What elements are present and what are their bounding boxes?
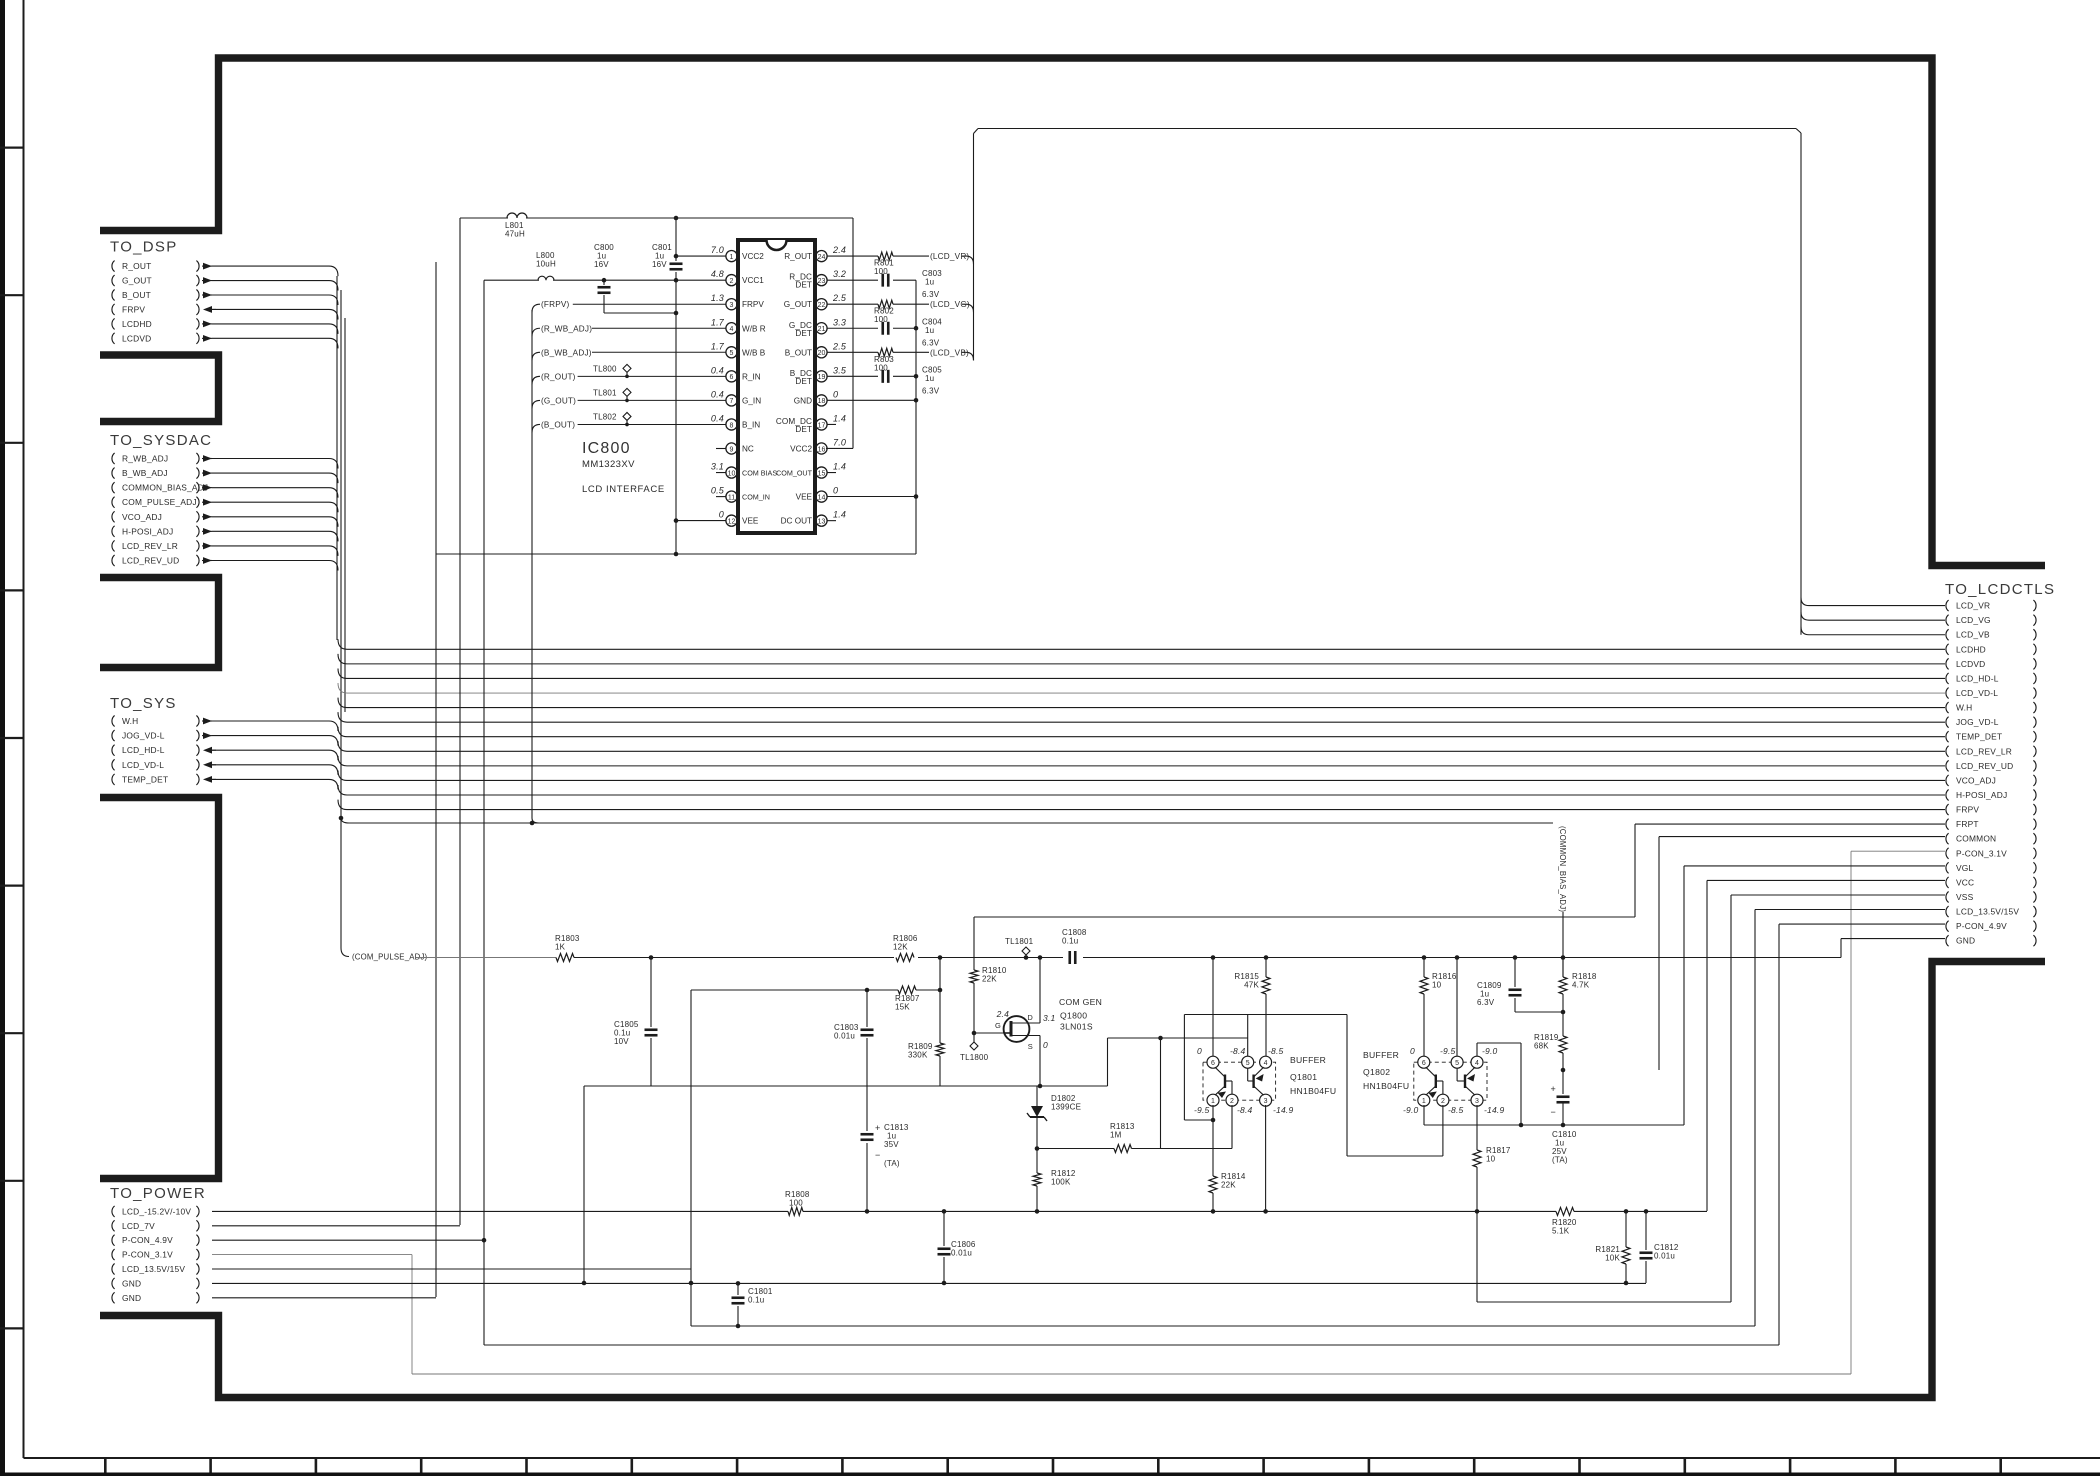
- svg-text:(G_OUT): (G_OUT): [541, 396, 576, 405]
- svg-text:P-CON_4.9V: P-CON_4.9V: [1956, 921, 2007, 931]
- svg-text:0: 0: [1197, 1046, 1202, 1056]
- svg-text:TO_DSP: TO_DSP: [110, 239, 178, 256]
- svg-text:W.H: W.H: [122, 716, 138, 726]
- svg-text:(COMMON_BIAS_ADJ): (COMMON_BIAS_ADJ): [1558, 826, 1567, 912]
- svg-text:330K: 330K: [908, 1051, 928, 1060]
- svg-text:8: 8: [730, 422, 734, 429]
- svg-text:G_OUT: G_OUT: [784, 300, 812, 309]
- svg-text:LCDHD: LCDHD: [122, 319, 152, 329]
- svg-text:0: 0: [1043, 1040, 1048, 1050]
- svg-text:IC800: IC800: [582, 440, 631, 457]
- svg-text:+: +: [875, 1123, 880, 1133]
- svg-text:1.7: 1.7: [711, 341, 725, 351]
- svg-text:−: −: [875, 1150, 880, 1160]
- svg-text:1.4: 1.4: [833, 413, 846, 423]
- svg-text:14: 14: [818, 494, 826, 501]
- svg-text:0: 0: [833, 389, 838, 399]
- svg-text:1u: 1u: [925, 326, 934, 335]
- svg-text:LCD_13.5V/15V: LCD_13.5V/15V: [1956, 907, 2019, 917]
- svg-text:17: 17: [818, 422, 826, 429]
- svg-text:TL800: TL800: [593, 364, 617, 373]
- svg-text:0.01u: 0.01u: [1654, 1252, 1675, 1261]
- svg-text:W/B R: W/B R: [742, 324, 766, 333]
- svg-text:COMMON: COMMON: [1956, 834, 1996, 844]
- svg-text:3.5: 3.5: [833, 365, 847, 375]
- svg-text:TEMP_DET: TEMP_DET: [1956, 732, 2002, 742]
- svg-text:P-CON_4.9V: P-CON_4.9V: [122, 1235, 173, 1245]
- svg-text:FRPV: FRPV: [1956, 805, 1979, 815]
- svg-text:2: 2: [730, 278, 734, 285]
- svg-text:(TA): (TA): [1552, 1156, 1568, 1165]
- svg-text:MM1323XV: MM1323XV: [582, 459, 635, 470]
- svg-text:6.3V: 6.3V: [922, 338, 940, 347]
- svg-text:BUFFER: BUFFER: [1363, 1050, 1399, 1060]
- svg-text:B_IN: B_IN: [742, 420, 760, 429]
- svg-text:22: 22: [818, 302, 826, 309]
- svg-text:R_WB_ADJ: R_WB_ADJ: [122, 454, 168, 464]
- svg-text:47K: 47K: [1244, 981, 1259, 990]
- svg-text:H-POSI_ADJ: H-POSI_ADJ: [122, 526, 173, 536]
- svg-text:LCD_-15.2V/-10V: LCD_-15.2V/-10V: [122, 1206, 191, 1216]
- svg-text:LCD_VB: LCD_VB: [1956, 630, 1990, 640]
- svg-text:W/B B: W/B B: [742, 348, 766, 357]
- svg-text:47uH: 47uH: [505, 230, 525, 239]
- svg-text:4.8: 4.8: [711, 269, 724, 279]
- svg-text:(B_WB_ADJ): (B_WB_ADJ): [541, 348, 592, 357]
- svg-text:LCD_REV_LR: LCD_REV_LR: [1956, 746, 2012, 756]
- svg-text:G: G: [995, 1021, 1001, 1030]
- svg-text:LCD_VD-L: LCD_VD-L: [122, 760, 164, 770]
- svg-text:7.0: 7.0: [711, 245, 724, 255]
- svg-text:TL802: TL802: [593, 412, 617, 421]
- svg-text:1u: 1u: [925, 278, 934, 287]
- svg-text:18: 18: [818, 398, 826, 405]
- svg-text:6: 6: [1422, 1060, 1426, 1067]
- svg-text:VSS: VSS: [1956, 892, 1974, 902]
- svg-text:G_OUT: G_OUT: [122, 276, 152, 286]
- svg-text:-9.5: -9.5: [1194, 1105, 1210, 1115]
- svg-text:LCD_VD-L: LCD_VD-L: [1956, 688, 1998, 698]
- svg-text:(B_OUT): (B_OUT): [541, 420, 575, 429]
- svg-text:D: D: [1027, 1013, 1033, 1022]
- svg-text:21: 21: [818, 326, 826, 333]
- svg-text:FRPV: FRPV: [742, 300, 764, 309]
- svg-text:B_OUT: B_OUT: [122, 290, 151, 300]
- svg-text:4: 4: [1475, 1060, 1479, 1067]
- svg-text:LCD_REV_LR: LCD_REV_LR: [122, 541, 178, 551]
- svg-text:-8.4: -8.4: [1237, 1105, 1253, 1115]
- svg-text:13: 13: [818, 518, 826, 525]
- svg-text:HN1B04FU: HN1B04FU: [1290, 1086, 1336, 1096]
- svg-text:NC: NC: [742, 445, 754, 454]
- svg-text:G_IN: G_IN: [742, 396, 761, 405]
- svg-text:10K: 10K: [1605, 1254, 1620, 1263]
- svg-text:LCD_13.5V/15V: LCD_13.5V/15V: [122, 1264, 185, 1274]
- svg-text:VEE: VEE: [742, 517, 759, 526]
- svg-text:BUFFER: BUFFER: [1290, 1055, 1326, 1065]
- svg-text:16V: 16V: [594, 260, 609, 269]
- svg-text:7: 7: [730, 398, 734, 405]
- svg-text:R_OUT: R_OUT: [784, 252, 812, 261]
- svg-text:DET: DET: [795, 281, 812, 290]
- svg-text:−: −: [1551, 1107, 1556, 1117]
- svg-text:2.5: 2.5: [832, 341, 847, 351]
- svg-text:3.2: 3.2: [833, 269, 846, 279]
- svg-text:P-CON_3.1V: P-CON_3.1V: [122, 1250, 173, 1260]
- svg-text:0.1u: 0.1u: [1062, 937, 1078, 946]
- svg-text:0.4: 0.4: [711, 389, 724, 399]
- svg-text:4: 4: [1264, 1060, 1268, 1067]
- svg-text:TEMP_DET: TEMP_DET: [122, 774, 168, 784]
- svg-text:VCC2: VCC2: [742, 252, 764, 261]
- svg-text:TL801: TL801: [593, 388, 617, 397]
- svg-text:0.1u: 0.1u: [748, 1296, 764, 1305]
- svg-text:-14.9: -14.9: [1273, 1105, 1293, 1115]
- svg-text:5: 5: [730, 350, 734, 357]
- svg-text:LCDVD: LCDVD: [122, 333, 151, 343]
- svg-text:20: 20: [818, 350, 826, 357]
- svg-text:4: 4: [730, 326, 734, 333]
- svg-text:LCD_VR: LCD_VR: [1956, 601, 1990, 611]
- svg-text:22K: 22K: [1221, 1181, 1236, 1190]
- svg-text:6: 6: [730, 374, 734, 381]
- svg-text:LCDHD: LCDHD: [1956, 644, 1986, 654]
- svg-text:COMMON_BIAS_ADJ: COMMON_BIAS_ADJ: [122, 483, 208, 493]
- svg-text:0.4: 0.4: [711, 413, 724, 423]
- svg-text:1.4: 1.4: [833, 462, 846, 472]
- svg-text:DET: DET: [795, 425, 812, 434]
- svg-text:6.3V: 6.3V: [922, 290, 940, 299]
- svg-text:FRPV: FRPV: [122, 304, 145, 314]
- svg-text:3: 3: [1475, 1098, 1479, 1105]
- svg-text:LCD INTERFACE: LCD INTERFACE: [582, 484, 665, 495]
- svg-text:(R_OUT): (R_OUT): [541, 372, 576, 381]
- svg-text:24: 24: [818, 254, 826, 261]
- svg-text:5: 5: [1455, 1060, 1459, 1067]
- svg-text:68K: 68K: [1534, 1042, 1549, 1051]
- svg-text:0.4: 0.4: [711, 365, 724, 375]
- svg-text:35V: 35V: [884, 1140, 899, 1149]
- svg-text:HN1B04FU: HN1B04FU: [1363, 1081, 1409, 1091]
- svg-text:(FRPV): (FRPV): [541, 300, 570, 309]
- svg-text:VGL: VGL: [1956, 863, 1974, 873]
- svg-text:-8.5: -8.5: [1268, 1046, 1284, 1056]
- svg-text:10: 10: [1432, 981, 1442, 990]
- svg-text:(TA): (TA): [884, 1159, 900, 1168]
- svg-text:19: 19: [818, 374, 826, 381]
- svg-text:0: 0: [719, 510, 724, 520]
- svg-text:B_WB_ADJ: B_WB_ADJ: [122, 468, 168, 478]
- svg-text:TO_POWER: TO_POWER: [110, 1185, 206, 1202]
- svg-text:0.01u: 0.01u: [951, 1249, 972, 1258]
- svg-text:1399CE: 1399CE: [1051, 1103, 1081, 1112]
- svg-text:VEE: VEE: [796, 493, 813, 502]
- svg-text:100K: 100K: [1051, 1178, 1071, 1187]
- svg-text:R_OUT: R_OUT: [122, 261, 151, 271]
- svg-text:VCC1: VCC1: [742, 276, 764, 285]
- svg-text:LCD_REV_UD: LCD_REV_UD: [1956, 761, 2013, 771]
- svg-text:16: 16: [818, 446, 826, 453]
- svg-text:3.1: 3.1: [711, 462, 724, 472]
- svg-text:9: 9: [730, 446, 734, 453]
- svg-text:LCDVD: LCDVD: [1956, 659, 1985, 669]
- svg-text:10: 10: [1486, 1155, 1496, 1164]
- svg-text:COM_PULSE_ADJ: COM_PULSE_ADJ: [122, 497, 197, 507]
- svg-text:(R_WB_ADJ): (R_WB_ADJ): [541, 324, 592, 333]
- svg-text:COM GEN: COM GEN: [1059, 997, 1102, 1007]
- svg-text:Q1801: Q1801: [1290, 1072, 1317, 1082]
- svg-text:JOG_VD-L: JOG_VD-L: [1956, 717, 1999, 727]
- svg-text:S: S: [1028, 1042, 1033, 1051]
- svg-text:100: 100: [874, 267, 888, 276]
- svg-text:B_OUT: B_OUT: [785, 348, 812, 357]
- svg-text:W.H: W.H: [1956, 703, 1972, 713]
- svg-text:GND: GND: [122, 1293, 141, 1303]
- svg-text:23: 23: [818, 278, 826, 285]
- svg-text:GND: GND: [1956, 936, 1975, 946]
- svg-text:1u: 1u: [925, 374, 934, 383]
- svg-text:12: 12: [728, 518, 736, 525]
- svg-text:Q1800: Q1800: [1060, 1011, 1087, 1021]
- svg-text:10V: 10V: [614, 1037, 629, 1046]
- svg-text:2: 2: [1230, 1098, 1234, 1105]
- svg-text:-8.4: -8.4: [1230, 1046, 1246, 1056]
- svg-text:LCD_VG: LCD_VG: [1956, 615, 1991, 625]
- svg-text:15K: 15K: [895, 1003, 910, 1012]
- svg-text:12K: 12K: [893, 943, 908, 952]
- svg-text:5: 5: [1246, 1060, 1250, 1067]
- svg-text:1.3: 1.3: [711, 293, 724, 303]
- svg-text:JOG_VD-L: JOG_VD-L: [122, 731, 165, 741]
- svg-text:0: 0: [1410, 1046, 1415, 1056]
- svg-text:1: 1: [1422, 1098, 1426, 1105]
- svg-text:2.5: 2.5: [832, 293, 847, 303]
- svg-text:FRPT: FRPT: [1956, 819, 1979, 829]
- svg-text:16V: 16V: [652, 260, 667, 269]
- svg-text:Q1802: Q1802: [1363, 1067, 1390, 1077]
- svg-text:VCC: VCC: [1956, 877, 1974, 887]
- svg-text:15: 15: [818, 470, 826, 477]
- svg-text:VCO_ADJ: VCO_ADJ: [1956, 775, 1996, 785]
- svg-text:0.01u: 0.01u: [834, 1032, 855, 1041]
- svg-text:11: 11: [728, 494, 735, 501]
- svg-text:1.4: 1.4: [833, 510, 846, 520]
- svg-text:0: 0: [833, 486, 838, 496]
- svg-text:LCD_HD-L: LCD_HD-L: [122, 745, 165, 755]
- svg-text:LCD_HD-L: LCD_HD-L: [1956, 673, 1999, 683]
- svg-text:TL1801: TL1801: [1005, 937, 1034, 946]
- svg-text:TO_LCDCTLS: TO_LCDCTLS: [1945, 581, 2055, 598]
- svg-text:-8.5: -8.5: [1448, 1105, 1464, 1115]
- svg-text:GND: GND: [122, 1278, 141, 1288]
- svg-text:TO_SYS: TO_SYS: [110, 695, 177, 712]
- svg-text:VCC2: VCC2: [790, 445, 812, 454]
- svg-text:LCD_REV_UD: LCD_REV_UD: [122, 555, 179, 565]
- svg-text:6: 6: [1211, 1060, 1215, 1067]
- svg-text:DET: DET: [795, 377, 812, 386]
- svg-text:COM_IN: COM_IN: [742, 493, 770, 502]
- svg-text:TO_SYSDAC: TO_SYSDAC: [110, 432, 212, 449]
- svg-text:COM BIAS: COM BIAS: [742, 469, 777, 478]
- svg-text:LCD_7V: LCD_7V: [122, 1221, 155, 1231]
- svg-text:2.4: 2.4: [832, 245, 846, 255]
- svg-text:R_IN: R_IN: [742, 372, 761, 381]
- svg-text:-9.5: -9.5: [1440, 1046, 1456, 1056]
- svg-text:COM_OUT: COM_OUT: [776, 469, 813, 478]
- svg-text:3LN01S: 3LN01S: [1060, 1022, 1093, 1032]
- svg-text:H-POSI_ADJ: H-POSI_ADJ: [1956, 790, 2007, 800]
- svg-text:6.3V: 6.3V: [922, 386, 940, 395]
- svg-text:3: 3: [730, 302, 734, 309]
- svg-text:2: 2: [1441, 1098, 1445, 1105]
- svg-text:7.0: 7.0: [833, 438, 846, 448]
- svg-text:10uH: 10uH: [536, 260, 556, 269]
- svg-text:1K: 1K: [555, 943, 566, 952]
- svg-text:1M: 1M: [1110, 1131, 1122, 1140]
- svg-text:3.3: 3.3: [833, 317, 846, 327]
- svg-text:3.1: 3.1: [1043, 1013, 1055, 1023]
- svg-text:1: 1: [1211, 1098, 1215, 1105]
- svg-text:100: 100: [789, 1199, 803, 1208]
- svg-text:GND: GND: [794, 396, 812, 405]
- svg-text:3: 3: [1264, 1098, 1268, 1105]
- svg-text:2.4: 2.4: [996, 1009, 1009, 1019]
- svg-text:(COM_PULSE_ADJ): (COM_PULSE_ADJ): [352, 953, 428, 962]
- svg-text:-9.0: -9.0: [1403, 1105, 1419, 1115]
- svg-text:VCO_ADJ: VCO_ADJ: [122, 512, 162, 522]
- svg-text:-14.9: -14.9: [1484, 1105, 1504, 1115]
- svg-text:0.5: 0.5: [711, 486, 725, 496]
- svg-text:6.3V: 6.3V: [1477, 998, 1495, 1007]
- svg-text:TL1800: TL1800: [960, 1053, 989, 1062]
- svg-text:-9.0: -9.0: [1482, 1046, 1498, 1056]
- svg-text:100: 100: [874, 315, 888, 324]
- svg-text:P-CON_3.1V: P-CON_3.1V: [1956, 848, 2007, 858]
- svg-text:1.7: 1.7: [711, 317, 725, 327]
- svg-text:5.1K: 5.1K: [1552, 1227, 1570, 1236]
- svg-text:DET: DET: [795, 329, 812, 338]
- svg-text:22K: 22K: [982, 975, 997, 984]
- svg-text:+: +: [1551, 1084, 1556, 1094]
- svg-text:4.7K: 4.7K: [1572, 981, 1590, 990]
- svg-text:100: 100: [874, 363, 888, 372]
- svg-text:DC OUT: DC OUT: [781, 517, 812, 526]
- svg-text:1: 1: [730, 254, 734, 261]
- svg-text:10: 10: [728, 470, 736, 477]
